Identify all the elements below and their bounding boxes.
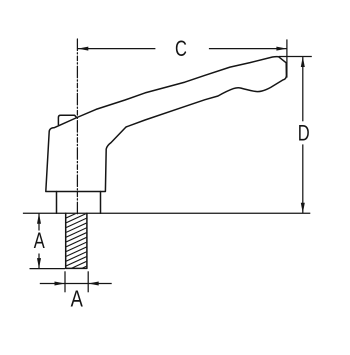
stud lower extension lines xyxy=(64,271,66,292)
label C xyxy=(175,37,187,62)
dimension C line xyxy=(78,48,156,50)
arrow A down xyxy=(37,258,41,269)
arrow D up xyxy=(301,57,305,68)
arrow C left xyxy=(78,47,89,51)
arrow D down xyxy=(301,203,305,214)
svg-text:D: D xyxy=(298,121,310,146)
dimension A horizontal line xyxy=(40,283,112,285)
baseline extension line xyxy=(23,212,310,214)
label A vertical xyxy=(34,229,45,254)
extension line D top xyxy=(279,56,312,58)
arrow C right xyxy=(276,47,287,51)
label A horizontal xyxy=(71,286,83,312)
svg-text:C: C xyxy=(175,37,187,62)
svg-text:A: A xyxy=(71,286,83,312)
dimension A vertical line xyxy=(38,213,40,230)
lever outline xyxy=(46,57,287,192)
arrow A2 right xyxy=(88,282,99,286)
arrow A up xyxy=(37,213,41,224)
clamp notch xyxy=(58,115,76,124)
dimension D line xyxy=(302,57,304,122)
arrow A2 left xyxy=(55,282,66,286)
thread hatching xyxy=(60,201,93,279)
label D xyxy=(298,121,310,146)
centerline xyxy=(76,39,78,214)
svg-text:A: A xyxy=(34,229,45,254)
extension line C right xyxy=(286,39,288,77)
threaded stud xyxy=(66,213,87,268)
stud bottom extension line xyxy=(30,268,66,270)
nut collar xyxy=(57,192,101,214)
